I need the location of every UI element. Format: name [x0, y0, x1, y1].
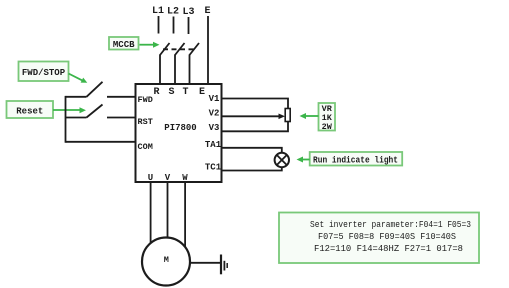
wire RST right — [107, 117, 136, 119]
label FWD/STOP — [19, 62, 69, 82]
wire V3 — [222, 122, 289, 132]
svg-text:R: R — [153, 87, 159, 98]
arrow FWD/STOP callout — [69, 74, 88, 83]
wire FWD left — [66, 96, 87, 98]
svg-text:F07=5 F08=8 F09=40S F10=40S: F07=5 F08=8 F09=40S F10=40S — [318, 232, 456, 242]
wire V — [167, 182, 169, 239]
wire TC1 — [222, 167, 282, 171]
svg-text:TC1: TC1 — [205, 163, 222, 173]
svg-text:V: V — [165, 173, 171, 183]
wire FWD right — [107, 96, 136, 98]
wire L2 drop — [173, 17, 175, 34]
svg-text:FWD/STOP: FWD/STOP — [22, 68, 66, 78]
svg-text:Set inverter parameter:F04=1: Set inverter parameter:F04=1 F05=3 — [310, 220, 471, 230]
label parameter settings box — [279, 213, 479, 264]
svg-text:S: S — [168, 87, 174, 98]
svg-text:M: M — [164, 255, 169, 265]
switch S2 Reset lever — [87, 105, 103, 118]
breaker MCCB pole 3 — [190, 43, 200, 84]
svg-text:MCCB: MCCB — [113, 40, 135, 50]
breaker MCCB pole 1 — [160, 43, 170, 84]
svg-text:Reset: Reset — [16, 106, 43, 116]
svg-text:COM: COM — [138, 142, 153, 152]
svg-text:V3: V3 — [209, 123, 220, 133]
label VR 1K 2W — [319, 103, 336, 132]
svg-text:L3: L3 — [182, 7, 194, 18]
wire RST left — [66, 117, 87, 119]
svg-text:TA1: TA1 — [205, 140, 222, 150]
svg-text:Run indicate light: Run indicate light — [313, 155, 398, 165]
wire TA1 — [222, 148, 282, 153]
svg-text:E: E — [204, 6, 210, 17]
arrow MCCB callout — [140, 42, 160, 48]
svg-text:T: T — [182, 87, 188, 98]
svg-text:RST: RST — [138, 117, 153, 127]
arrow Run light callout — [297, 157, 310, 163]
wire W — [184, 182, 186, 248]
svg-text:F12=110 F14=48HZ F27=1 017: F12=110 F14=48HZ F27=1 017=8 — [314, 244, 463, 254]
label MCCB — [109, 37, 139, 50]
ground (earth) — [221, 255, 227, 275]
svg-text:V1: V1 — [209, 94, 220, 104]
label Run indicate light — [310, 152, 403, 166]
wire U — [150, 182, 152, 243]
breaker MCCB pole 2 — [175, 43, 185, 84]
svg-text:PI7800: PI7800 — [164, 123, 196, 133]
wire L1 drop — [158, 16, 160, 34]
arrow Reset callout — [53, 107, 86, 113]
switch S1 FWD/STOP lever — [87, 82, 103, 97]
wire COM — [66, 141, 136, 143]
wire L3 drop — [188, 17, 190, 34]
svg-text:V2: V2 — [209, 108, 220, 118]
svg-text:L2: L2 — [167, 7, 179, 18]
breaker linkage (dashed) — [163, 48, 194, 50]
wire motor to ground — [190, 262, 221, 264]
inverter U1 PI7800 body — [136, 84, 222, 182]
lamp run indicator — [275, 153, 289, 167]
svg-text:2W: 2W — [322, 122, 333, 132]
svg-text:FWD: FWD — [138, 95, 153, 105]
wire V1 — [222, 99, 289, 109]
svg-text:W: W — [182, 173, 188, 183]
wire common bus vertical — [65, 96, 67, 143]
arrow VR callout — [300, 113, 319, 119]
wire V2 wiper with arrow — [222, 114, 286, 120]
svg-text:E: E — [199, 87, 205, 98]
motor M — [142, 238, 190, 286]
svg-text:L1: L1 — [152, 6, 164, 17]
potentiometer VR body — [285, 109, 290, 122]
wire E drop — [207, 16, 209, 84]
svg-text:U: U — [148, 173, 153, 183]
label Reset — [7, 101, 54, 118]
